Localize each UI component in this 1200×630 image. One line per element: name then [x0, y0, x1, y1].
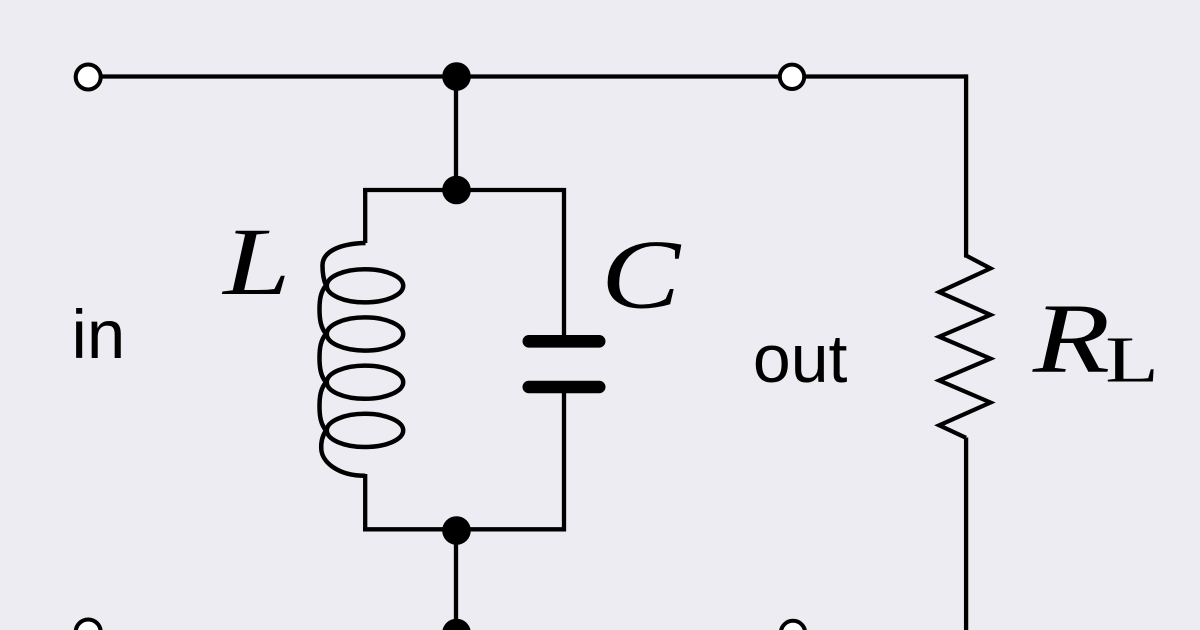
- wire: drop from top node to LC top node: [454, 77, 458, 191]
- wire: capacitor top lead: [562, 188, 566, 336]
- capacitor C top plate: [523, 335, 606, 348]
- svg-text:L: L: [221, 209, 290, 315]
- resistor RL zigzag: [939, 256, 990, 438]
- node: LC bottom junction dot: [442, 516, 471, 545]
- wire: LC top rail: [363, 188, 566, 192]
- node: top junction dot: [442, 62, 471, 91]
- inductor L coil: exit curve: [321, 430, 365, 475]
- inductor L coil: left spine: [320, 286, 327, 431]
- node: bottom rail junction dot (clipped): [442, 619, 471, 630]
- wire: LC bottom rail: [363, 527, 566, 531]
- wire: top rail from input to right corner: [88, 74, 966, 78]
- inductor L coil: loop 3: [327, 366, 403, 399]
- terminal: output bottom (open circle, clipped): [781, 621, 805, 630]
- wire: capacitor bottom lead: [562, 392, 566, 531]
- capacitor C bottom plate: [523, 381, 606, 393]
- node: LC top junction dot: [442, 176, 471, 205]
- wire: right vertical down to resistor top: [964, 74, 968, 257]
- inductor L coil: loop 1: [327, 269, 403, 302]
- svg-text:L: L: [1105, 323, 1159, 396]
- wire: resistor bottom lead to bottom edge: [964, 438, 968, 630]
- svg-text:out: out: [753, 321, 848, 397]
- inductor L coil: loop 2: [327, 317, 403, 350]
- svg-text:C: C: [601, 220, 681, 330]
- svg-text:R: R: [1032, 283, 1110, 393]
- terminal: input top (open circle): [76, 65, 101, 90]
- svg-text:in: in: [72, 296, 126, 373]
- wire: drop from LC bottom node to bottom rail: [454, 529, 458, 630]
- inductor L coil: loop 4: [327, 414, 403, 447]
- wire: inductor top lead: [363, 188, 367, 243]
- wire: inductor bottom lead: [363, 474, 367, 531]
- terminal: output top (open circle): [780, 65, 804, 89]
- terminal: input bottom (open circle, clipped): [76, 620, 101, 630]
- inductor L coil: entry curve: [322, 243, 365, 286]
